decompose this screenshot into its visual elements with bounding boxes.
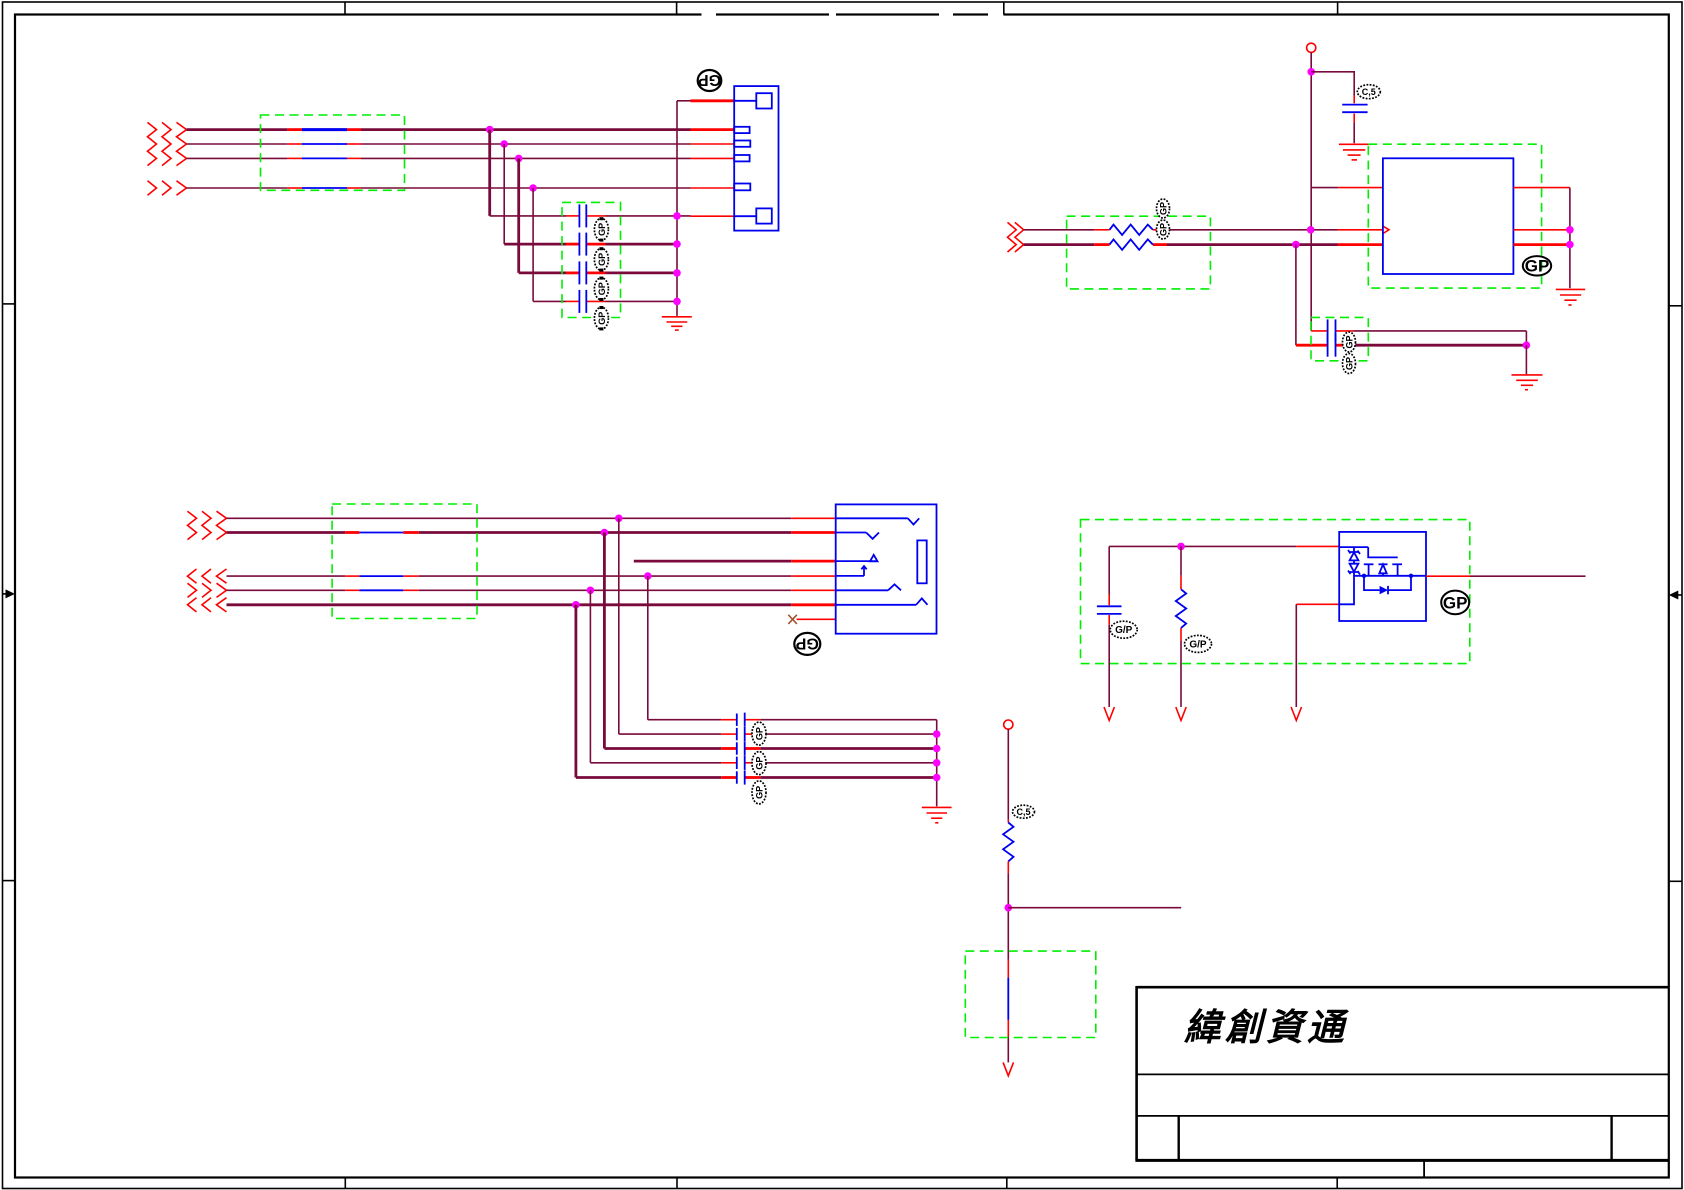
svg-text:GP: GP bbox=[698, 71, 721, 88]
cap row1 wire bbox=[1311, 331, 1526, 345]
svg-text:GP: GP bbox=[597, 253, 607, 266]
svg-text:G/P: G/P bbox=[1115, 625, 1133, 636]
resistor label 2 bbox=[1157, 220, 1170, 239]
svg-text:GP: GP bbox=[1443, 593, 1468, 612]
IC right pin1 wire bbox=[1513, 187, 1570, 189]
svg-text:GP: GP bbox=[755, 786, 765, 799]
ground bus vertical bbox=[936, 720, 938, 807]
border tick left 1 bbox=[3, 303, 16, 305]
input wire bbox=[1109, 545, 1339, 547]
junction dots rows bbox=[572, 515, 651, 609]
svg-text:GP: GP bbox=[1159, 223, 1169, 236]
wire cap row III bbox=[604, 747, 936, 750]
output wire bbox=[1426, 575, 1586, 577]
svg-text:GP: GP bbox=[1345, 335, 1355, 348]
svg-text:C,5: C,5 bbox=[1016, 807, 1030, 817]
pullup resistor bbox=[1003, 823, 1013, 862]
bypass capacitor bbox=[1342, 105, 1367, 113]
capacitor dashed box bbox=[562, 202, 621, 317]
title block cell divider right bbox=[1610, 1116, 1612, 1161]
Q1 source path thick bbox=[1339, 572, 1354, 604]
wire cap row IV bbox=[590, 762, 936, 764]
wire row4 bbox=[187, 187, 735, 189]
IC right pin3 wire bbox=[1513, 243, 1570, 246]
capacitor label 1 bbox=[752, 722, 766, 745]
wire row2 bbox=[227, 531, 836, 534]
ground arrow source bbox=[1291, 707, 1301, 720]
resistor R1 bbox=[1110, 225, 1153, 235]
CIRCUIT4 bbox=[1081, 520, 1586, 721]
source pin wire bbox=[1296, 604, 1339, 707]
cap label 1 bbox=[1343, 332, 1356, 352]
wire row2 bbox=[1024, 243, 1383, 246]
connector pin mark row2 bbox=[836, 533, 879, 539]
border tick top 2 bbox=[676, 2, 678, 15]
border tick right 2 bbox=[1669, 880, 1682, 882]
capacitor B bbox=[579, 233, 586, 256]
GP stamp rotated bbox=[698, 70, 722, 91]
component dashed box bbox=[261, 115, 405, 190]
ferrite bead row2 bbox=[359, 532, 403, 534]
svg-text:GP: GP bbox=[1159, 202, 1169, 215]
wire row3 bbox=[187, 157, 735, 159]
junction dots right bbox=[1566, 226, 1574, 248]
svg-text:C,5: C,5 bbox=[1362, 87, 1376, 97]
wire row1 bbox=[187, 128, 735, 131]
wire vertical drop row1 bbox=[618, 518, 620, 734]
off-page connector arrow (row 4) bbox=[148, 181, 187, 195]
CIRCUIT3 bbox=[188, 504, 952, 823]
svg-text:GP: GP bbox=[795, 634, 818, 651]
svg-text:GP: GP bbox=[1345, 357, 1355, 370]
title block strip divider bbox=[1423, 1160, 1425, 1177]
Q1 body diode bbox=[1364, 576, 1411, 595]
pulldown resistor branch wire bbox=[1180, 546, 1182, 707]
border arrow left bbox=[3, 589, 16, 598]
border tick top 4 bbox=[1337, 2, 1339, 15]
IC right ground vertical bbox=[1569, 188, 1571, 289]
ground symbol bbox=[922, 807, 952, 822]
connector J2 bbox=[836, 504, 937, 633]
resistor dashed box bbox=[1067, 216, 1211, 289]
wire vertical drop row2 bbox=[603, 533, 606, 749]
ground symbol bbox=[662, 317, 692, 330]
border tick bottom 2 bbox=[676, 1178, 678, 1189]
Q1 input rail bbox=[1339, 546, 1368, 548]
capacitor D bbox=[579, 290, 586, 313]
wire cap branch bbox=[1311, 72, 1354, 143]
wire vertical drop 1 bbox=[488, 130, 491, 216]
wire vertical drop 4 bbox=[532, 188, 534, 301]
border tick top 1 bbox=[344, 2, 346, 15]
junction dot power bbox=[1307, 68, 1315, 76]
junction dots ground bus bbox=[933, 730, 941, 781]
capacitor label G/P bbox=[1110, 621, 1137, 638]
off-page connector arrows (3-row zigzag) bbox=[188, 569, 227, 612]
IC pin1 wire bbox=[1311, 187, 1383, 189]
capacitor bank plates bbox=[737, 713, 745, 785]
Q1 zener pair bbox=[1348, 547, 1360, 574]
wire cap row I bbox=[648, 719, 937, 721]
wire cap row A bbox=[490, 215, 735, 217]
filter cap branch wire bbox=[1108, 546, 1110, 707]
ground wire cap bbox=[1525, 345, 1527, 374]
pullup wire bottom bbox=[1007, 861, 1009, 960]
border arrow right bbox=[1669, 591, 1682, 600]
coupling cap vertical feed bbox=[1295, 245, 1297, 346]
capacitor C bbox=[579, 261, 586, 284]
resistor label 1 bbox=[1157, 199, 1170, 218]
title block frame bbox=[1135, 986, 1668, 1160]
svg-text:GP: GP bbox=[597, 312, 607, 325]
component dashed box bbox=[332, 504, 477, 619]
filter capacitor bbox=[1097, 606, 1122, 614]
svg-text:GP: GP bbox=[1525, 257, 1550, 276]
connector J1 bbox=[734, 86, 778, 231]
capacitor label bbox=[1357, 85, 1380, 99]
junction dots rows bbox=[486, 126, 537, 192]
GP stamp bbox=[1441, 591, 1469, 615]
pulldown resistor bbox=[1176, 589, 1186, 628]
svg-text:GP: GP bbox=[755, 757, 765, 770]
IC input pin arrow bbox=[1383, 226, 1389, 233]
wire cap row V bbox=[576, 776, 937, 779]
coupling capacitor 1 bbox=[1328, 319, 1336, 342]
CIRCUIT1 bbox=[148, 70, 779, 330]
connector pin mark stub bbox=[836, 555, 878, 562]
connector slot bbox=[917, 540, 926, 583]
resistor label bbox=[1013, 805, 1035, 818]
border tick right 1 bbox=[1669, 305, 1682, 307]
stub wire bbox=[634, 560, 836, 563]
connector pin mark row5 bbox=[836, 598, 928, 604]
wire top pin bbox=[677, 100, 734, 102]
connector pin mark row3 bbox=[836, 566, 867, 576]
wire cap row C bbox=[519, 271, 677, 274]
capacitor label B bbox=[594, 247, 608, 271]
junction dots ground bus bbox=[673, 212, 681, 305]
CIRCUIT5 bbox=[965, 720, 1181, 1076]
coupling cap dashed box bbox=[1311, 317, 1368, 360]
Q1 diode up bbox=[1379, 564, 1388, 576]
svg-text:GP: GP bbox=[597, 223, 607, 236]
capacitor label 2 bbox=[752, 752, 766, 775]
connector pin mark row1 bbox=[836, 518, 920, 524]
capacitor label A bbox=[594, 217, 608, 241]
capacitor A bbox=[579, 204, 586, 227]
ground symbol cap bbox=[1339, 144, 1371, 160]
protection dashed box bbox=[1081, 520, 1470, 664]
wire row2 bbox=[187, 143, 735, 145]
capacitor label 3 bbox=[752, 781, 766, 804]
border tick bottom 4 bbox=[1336, 1178, 1338, 1189]
logo text Wistron bbox=[1184, 1008, 1349, 1049]
capacitor label C bbox=[594, 277, 608, 301]
GP stamp rotated bbox=[794, 633, 820, 655]
off-page connector arrows (2-row) bbox=[1008, 222, 1024, 252]
wire vertical drop row4 bbox=[589, 590, 591, 763]
wire cap row B bbox=[504, 243, 677, 246]
ferrite bead row2 bbox=[302, 143, 347, 145]
TITLEBLOCK bbox=[1135, 986, 1668, 1178]
capacitor label D bbox=[594, 306, 608, 330]
off-page connector arrows (2-row) bbox=[188, 511, 227, 539]
border tick left 2 bbox=[3, 880, 16, 882]
cap label 2 bbox=[1343, 354, 1356, 374]
component dashed box bbox=[965, 951, 1096, 1037]
wire row1 bbox=[227, 517, 836, 519]
IC U1 bbox=[1383, 158, 1514, 274]
border tick bottom 1 bbox=[344, 1178, 346, 1189]
coupling capacitor 2 bbox=[1328, 334, 1336, 357]
cap row2 wire bbox=[1296, 344, 1527, 347]
junction dot row1 bbox=[1307, 226, 1315, 234]
ferrite bead row3 bbox=[302, 157, 347, 159]
resistor R2 bbox=[1110, 239, 1153, 249]
svg-text:緯創資通: 緯創資通 bbox=[1184, 1008, 1349, 1049]
ground symbol cap2 bbox=[1512, 375, 1543, 390]
no-connect X bbox=[788, 615, 797, 624]
IC right pin2 wire bbox=[1513, 229, 1570, 231]
Q1 fet2 bbox=[1392, 564, 1402, 576]
ground arrow resistor bbox=[1176, 707, 1186, 720]
junction dot cap bbox=[1523, 341, 1531, 349]
power node circle bbox=[1004, 720, 1013, 729]
wire row1 bbox=[1024, 229, 1383, 231]
series component leads bbox=[1007, 960, 1009, 1063]
Q1 fet1 bbox=[1364, 564, 1374, 576]
border tick bottom 3 bbox=[1006, 1178, 1008, 1189]
connector pin mark row4 bbox=[836, 584, 901, 590]
junction dot row2 bbox=[1292, 241, 1300, 249]
wire row3 bbox=[227, 575, 836, 577]
ferrite bead row4 bbox=[302, 187, 347, 189]
svg-text:GP: GP bbox=[597, 282, 607, 295]
wire vertical drop row3 bbox=[647, 576, 649, 720]
wire vertical drop 3 bbox=[517, 158, 520, 273]
wire cap row II bbox=[619, 733, 937, 735]
IC dashed box bbox=[1368, 144, 1541, 288]
CIRCUIT2 bbox=[1008, 43, 1586, 390]
resistor label G/P bbox=[1185, 635, 1212, 652]
svg-text:GP: GP bbox=[755, 727, 765, 740]
junction dot bbox=[1177, 543, 1185, 551]
ferrite bead row3 bbox=[359, 575, 403, 577]
no-connect wire bbox=[797, 618, 836, 620]
off-page connector arrows (3-row) bbox=[148, 122, 187, 165]
wire vertical drop row5 bbox=[575, 605, 578, 778]
power net vertical bbox=[1310, 52, 1312, 331]
wire row5 bbox=[227, 603, 836, 606]
tap wire bbox=[1008, 907, 1181, 909]
title block cell divider left bbox=[1177, 1116, 1179, 1161]
MOSFET switch Q1 box bbox=[1339, 532, 1426, 621]
border tick top 3 bbox=[1003, 2, 1005, 15]
series component (jumper) bbox=[1007, 978, 1009, 1020]
ground arrow cap bbox=[1104, 707, 1114, 720]
ground bus vertical bbox=[676, 101, 678, 316]
wire cap row D bbox=[533, 300, 677, 302]
junction dot bbox=[1005, 904, 1013, 912]
wire row4 bbox=[227, 589, 836, 591]
ferrite bead row1 bbox=[302, 128, 347, 131]
ground symbol IC bbox=[1556, 289, 1585, 305]
Q1 drain rail bbox=[1354, 574, 1426, 578]
wire vertical drop 2 bbox=[503, 144, 505, 244]
power node circle bbox=[1307, 43, 1316, 52]
svg-text:G/P: G/P bbox=[1189, 639, 1207, 650]
ferrite bead row4 bbox=[359, 589, 403, 591]
GP stamp bbox=[1523, 256, 1551, 275]
pullup wire top bbox=[1007, 729, 1009, 822]
Q1 gate wire bbox=[1368, 547, 1398, 557]
ground arrow bbox=[1003, 1062, 1013, 1075]
